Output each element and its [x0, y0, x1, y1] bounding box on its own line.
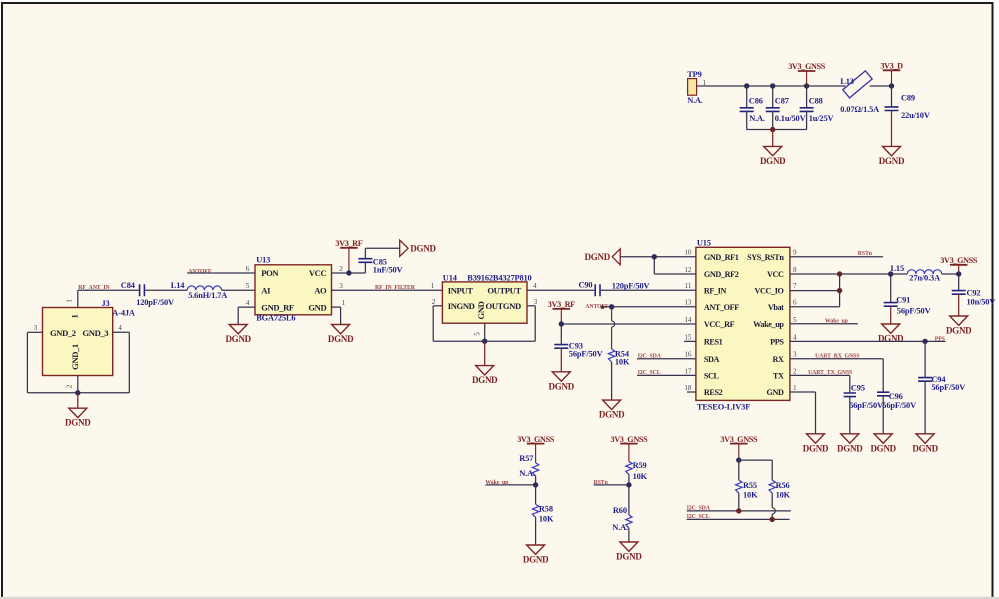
svg-text:C88: C88: [809, 96, 823, 105]
svg-text:DGND: DGND: [803, 443, 829, 453]
node VCC column top: [837, 271, 842, 276]
svg-text:14: 14: [684, 316, 692, 324]
capacitor C93 56pF/50V: [554, 324, 602, 372]
svg-text:22u/10V: 22u/10V: [901, 111, 930, 120]
svg-text:B39162B4327P810: B39162B4327P810: [467, 274, 531, 283]
power 3V3_GNSS: [788, 62, 826, 86]
svg-text:GND_RF2: GND_RF2: [704, 270, 739, 279]
svg-text:GND_RF1: GND_RF1: [704, 253, 739, 262]
svg-text:1: 1: [342, 299, 346, 307]
svg-text:1u/25V: 1u/25V: [809, 114, 834, 123]
svg-text:11: 11: [685, 282, 692, 290]
pin 15 stub of U15: [684, 340, 696, 342]
svg-text:AI: AI: [261, 285, 271, 295]
svg-text:DGND: DGND: [599, 410, 625, 420]
svg-text:56pF/50V: 56pF/50V: [931, 383, 965, 392]
svg-text:I2C_SDA: I2C_SDA: [687, 505, 711, 511]
wire U15 pin 4 net PPS: [790, 340, 946, 342]
node R56 / I2C_SCL: [770, 517, 775, 522]
svg-text:0.07Ω/1.5A: 0.07Ω/1.5A: [840, 105, 879, 114]
svg-text:4: 4: [118, 324, 122, 332]
svg-text:17: 17: [684, 367, 692, 375]
svg-text:RX: RX: [772, 355, 784, 364]
svg-text:TX: TX: [773, 372, 784, 381]
svg-text:3V3_GNSS: 3V3_GNSS: [788, 62, 826, 71]
svg-text:R59: R59: [633, 461, 647, 470]
svg-text:Vbat: Vbat: [768, 303, 784, 312]
svg-text:DGND: DGND: [65, 418, 91, 428]
svg-text:U13: U13: [256, 255, 270, 264]
svg-text:56pF/50V: 56pF/50V: [882, 401, 916, 410]
power 3V3_GNSS at R59: [611, 435, 649, 462]
node J3 ground join: [75, 390, 80, 395]
svg-text:DGND: DGND: [523, 555, 549, 565]
svg-text:DGND: DGND: [879, 156, 905, 166]
svg-text:3: 3: [339, 282, 343, 290]
wire U15 pin 6 Vbat: [790, 306, 840, 308]
svg-text:56pF/50V: 56pF/50V: [849, 401, 883, 410]
pin 1 of J3: [77, 290, 79, 307]
svg-text:5: 5: [793, 316, 797, 324]
capacitor C85 1nF/50V: [358, 248, 402, 274]
wire U15 pin 5 net Wake_up: [790, 323, 858, 325]
svg-text:OUTGND: OUTGND: [485, 301, 521, 311]
wire R55 top to R56 top: [739, 460, 772, 480]
wire J3 to C84: [78, 289, 139, 291]
svg-text:GND: GND: [767, 388, 784, 397]
svg-text:I2C_SDA: I2C_SDA: [638, 353, 662, 359]
wire ANTOFF to U15 pin 13: [601, 306, 696, 308]
node at PPS / C94: [922, 339, 927, 344]
ground DGND of R54: [599, 400, 625, 420]
capacitor C91 56pF/50V: [884, 274, 931, 324]
svg-text:18: 18: [684, 384, 692, 392]
svg-text:10K: 10K: [633, 472, 648, 481]
svg-text:U15: U15: [697, 239, 711, 248]
wire ANTOFF down with hop over VCC_RF: [612, 307, 615, 349]
capacitor C88 1u/25V: [800, 86, 834, 130]
wire U15 pin 8 VCC: [790, 273, 891, 275]
node R55/R56 top join: [736, 457, 741, 462]
pin 4 wire of U14 OUTPUT: [527, 282, 594, 290]
svg-text:120pF/50V: 120pF/50V: [136, 298, 174, 307]
svg-text:A-4JA: A-4JA: [112, 309, 135, 318]
node at U13 VCC / 3V3_RF: [346, 270, 351, 275]
svg-text:4: 4: [246, 299, 250, 307]
svg-text:C87: C87: [775, 96, 789, 105]
svg-text:C96: C96: [889, 392, 903, 401]
ferrite bead L13 0.07ohm/1.5A: [840, 71, 879, 114]
wire net I2C_SDA bottom: [687, 510, 791, 512]
power 3V3_GNSS at R57: [517, 435, 555, 463]
resistor R58 10K: [532, 485, 554, 545]
ground DGND of J3: [65, 408, 91, 428]
ground DGND of C94: [912, 434, 938, 454]
svg-text:16: 16: [684, 351, 692, 359]
svg-text:DGND: DGND: [912, 443, 938, 453]
svg-text:R58: R58: [539, 504, 553, 513]
svg-text:I2C_SCL: I2C_SCL: [638, 370, 661, 376]
svg-text:C91: C91: [896, 295, 910, 304]
svg-text:R60: R60: [613, 506, 627, 515]
svg-text:DGND: DGND: [837, 443, 863, 453]
svg-text:DGND: DGND: [616, 552, 642, 562]
power 3V3_GNSS at L15: [940, 256, 978, 274]
svg-text:DGND: DGND: [328, 334, 354, 344]
svg-text:VCC: VCC: [309, 268, 327, 278]
wire U15 pin 2 net UART_TX_GNSS: [790, 375, 850, 393]
wire C85 to DGND arrow: [365, 247, 399, 249]
capacitor C96 56pF/50V: [877, 392, 916, 434]
inductor L14 5.6nH/1.7A: [171, 281, 227, 300]
svg-text:C86: C86: [749, 96, 763, 105]
svg-text:5: 5: [246, 282, 250, 290]
svg-text:3V3_GNSS: 3V3_GNSS: [940, 256, 978, 265]
node at C87: [770, 83, 775, 88]
svg-text:DGND: DGND: [585, 252, 611, 262]
LNA U13 BGA725L6: [255, 255, 332, 322]
ground DGND of C91: [878, 324, 904, 344]
capacitor C90 120pF/50V: [579, 281, 650, 297]
svg-text:R56: R56: [776, 481, 790, 490]
svg-text:5.6nH/1.7A: 5.6nH/1.7A: [188, 291, 227, 300]
pin 4 of J3: [78, 324, 130, 393]
svg-text:Wake_up: Wake_up: [825, 318, 848, 324]
resistor R54 10K: [608, 349, 630, 400]
svg-text:10n/50V: 10n/50V: [967, 298, 996, 307]
ground DGND of U13 pin 1: [328, 325, 354, 345]
svg-text:PON: PON: [261, 268, 279, 278]
svg-text:3: 3: [34, 324, 38, 332]
svg-text:1nF/50V: 1nF/50V: [373, 265, 403, 274]
wire U15 pin 9 net RSTn: [790, 256, 883, 258]
svg-text:L15: L15: [891, 264, 905, 273]
wire net Wake_up at R57/R58: [485, 484, 535, 486]
svg-text:5: 5: [474, 332, 482, 336]
wire TP9 to L13: [697, 85, 846, 87]
power 3V3_RF at U13 VCC: [335, 239, 362, 273]
svg-text:3V3_RF: 3V3_RF: [335, 239, 362, 248]
ground DGND of C92: [946, 316, 972, 336]
node at 3V3_GNSS / C92: [956, 271, 961, 276]
wire rail to DGND: [772, 130, 774, 147]
svg-text:DGND: DGND: [760, 156, 786, 166]
node R55 / I2C_SDA: [736, 508, 741, 513]
svg-text:L14: L14: [171, 281, 185, 290]
svg-text:U14: U14: [443, 274, 458, 283]
wire L14 to U13 pin 5: [222, 289, 255, 291]
wire to DGND of J3: [77, 393, 79, 408]
svg-text:PPS: PPS: [935, 336, 945, 342]
svg-text:1: 1: [431, 282, 435, 290]
resistor R56 10K: [769, 480, 791, 519]
node at C86: [744, 83, 749, 88]
node VCC column mid: [837, 288, 842, 293]
svg-text:1: 1: [793, 384, 797, 392]
wire L13 to 3V3_D node: [870, 85, 892, 87]
ground DGND of U14: [472, 366, 498, 386]
capacitor C89 22u/10V: [885, 86, 930, 146]
svg-text:GND_3: GND_3: [83, 328, 109, 338]
svg-text:GND: GND: [476, 301, 486, 319]
svg-text:10: 10: [684, 249, 692, 257]
GNSS module U15 TESEO-LIV3F: [684, 239, 797, 412]
svg-text:120pF/50V: 120pF/50V: [612, 281, 650, 290]
svg-text:56pF/50V: 56pF/50V: [897, 306, 931, 315]
svg-text:UART_TX_GNSS: UART_TX_GNSS: [808, 370, 852, 376]
svg-text:27n/0.3A: 27n/0.3A: [909, 274, 940, 283]
wire U15 pin 1 GND: [790, 392, 816, 434]
wire net I2C_SCL bottom: [687, 518, 790, 520]
wire ground rail of C86-C88: [747, 129, 807, 131]
svg-text:2: 2: [66, 384, 74, 388]
wire U13 AO to U14 INPUT net RF_IN_FILTER: [332, 282, 443, 290]
svg-text:56pF/50V: 56pF/50V: [569, 350, 603, 359]
svg-text:R55: R55: [743, 481, 757, 490]
svg-text:DGND: DGND: [946, 326, 972, 336]
svg-text:1: 1: [70, 314, 80, 318]
svg-text:ANTOFF: ANTOFF: [188, 269, 212, 275]
svg-text:GND_2: GND_2: [50, 328, 76, 338]
svg-text:3: 3: [793, 351, 797, 359]
svg-text:RF_IN: RF_IN: [704, 286, 727, 295]
svg-text:OUTPUT: OUTPUT: [487, 286, 521, 296]
pin 18 stub of U15: [687, 391, 696, 393]
pin 3 of J3: [27, 324, 77, 393]
ground DGND of R58: [523, 545, 549, 565]
node at ANTOFF / R54: [609, 304, 614, 309]
svg-text:Wake_up: Wake_up: [485, 480, 508, 486]
svg-text:3V3_GNSS: 3V3_GNSS: [611, 435, 649, 444]
svg-text:AO: AO: [314, 285, 327, 295]
svg-text:VCC_IO: VCC_IO: [755, 286, 784, 295]
node on ground rail: [770, 127, 775, 132]
power 3V3_RF at U15 VCC_RF: [548, 300, 575, 324]
ground DGND of C95: [837, 434, 863, 454]
node R57/R58 join: [533, 482, 538, 487]
svg-text:10K: 10K: [539, 515, 554, 524]
svg-text:DGND: DGND: [225, 334, 251, 344]
svg-text:TESEO-LIV3F: TESEO-LIV3F: [697, 402, 750, 411]
pin 5 of U14 GND: [474, 323, 485, 341]
svg-text:1: 1: [65, 299, 73, 303]
svg-text:0.1u/50V: 0.1u/50V: [775, 114, 806, 123]
svg-text:8: 8: [793, 266, 797, 274]
svg-text:10K: 10K: [776, 490, 791, 499]
svg-text:C90: C90: [579, 281, 593, 290]
svg-text:15: 15: [684, 333, 692, 341]
svg-text:SDA: SDA: [704, 355, 720, 364]
inductor L15 27n/0.3A: [891, 264, 959, 283]
svg-text:INPUT: INPUT: [448, 286, 473, 296]
svg-text:DGND: DGND: [870, 443, 896, 453]
svg-text:N.A.: N.A.: [687, 96, 703, 105]
svg-text:RSTn: RSTn: [858, 251, 873, 257]
svg-text:DGND: DGND: [549, 381, 575, 391]
svg-text:VCC_RF: VCC_RF: [704, 320, 735, 329]
bottom edge strip: [0, 597, 999, 599]
svg-text:L13: L13: [840, 77, 854, 86]
wire I2C_SDA to U15 pin 16: [637, 358, 696, 360]
svg-text:RSTn: RSTn: [594, 480, 609, 486]
svg-text:4: 4: [533, 282, 537, 290]
svg-text:SYS_RSTn: SYS_RSTn: [747, 253, 784, 262]
capacitor C87 0.1u/50V: [766, 86, 806, 130]
ground DGND of U15 pin 1: [803, 434, 829, 454]
svg-text:Wake_up: Wake_up: [753, 320, 784, 329]
wire C90 to U15 RF_IN: [601, 289, 696, 291]
capacitor C84 120pF/50V: [121, 281, 187, 307]
svg-text:DGND: DGND: [472, 375, 498, 385]
svg-text:R57: R57: [519, 454, 533, 463]
wire net RSTn at R59/R60: [594, 484, 629, 486]
capacitor C92 10n/50V: [952, 274, 996, 316]
pin 2 wire of U13 VCC: [332, 265, 366, 273]
node at 3V3_RF / C93: [559, 321, 564, 326]
svg-text:GND: GND: [308, 302, 326, 312]
capacitor C95 56pF/50V: [844, 383, 883, 434]
node GND_RF join: [652, 254, 657, 259]
svg-text:GND_RF: GND_RF: [261, 302, 294, 312]
svg-text:3V3_D: 3V3_D: [880, 62, 903, 71]
wire U15 pin 7 VCC_IO: [790, 290, 840, 292]
svg-text:GND_1: GND_1: [70, 344, 80, 370]
ground DGND arrow at C85: [400, 240, 437, 256]
pin 2 of U14 INGND: [432, 298, 485, 341]
svg-text:6: 6: [246, 265, 250, 273]
resistor R59 10K: [626, 461, 648, 485]
ground DGND of C89: [879, 146, 905, 166]
pin 2 of J3: [66, 376, 78, 393]
svg-text:C84: C84: [121, 281, 136, 290]
svg-text:RES2: RES2: [704, 388, 723, 397]
node R59/R60 join: [626, 482, 631, 487]
ground DGND of C86-C88: [760, 146, 786, 166]
connector J3 A-4JA: [43, 299, 135, 375]
svg-text:2: 2: [339, 265, 343, 273]
svg-text:N.A.: N.A.: [749, 114, 765, 123]
ground DGND arrow at U15 pin 10: [585, 249, 621, 265]
pin 3 of U14 OUTGND: [485, 298, 538, 341]
svg-text:DGND: DGND: [410, 244, 436, 254]
svg-text:C89: C89: [901, 93, 915, 102]
wire U15 pin 3 net UART_RX_GNSS: [790, 359, 883, 392]
node U14 ground join: [482, 339, 487, 344]
wire I2C_SCL to U15 pin 17: [637, 374, 696, 376]
node at C88 / 3V3_GNSS: [804, 83, 809, 88]
svg-text:13: 13: [684, 299, 692, 307]
wire DGND to U15 pin 10: [620, 256, 696, 258]
svg-text:6: 6: [793, 299, 797, 307]
svg-text:SCL: SCL: [704, 372, 720, 381]
svg-text:VCC: VCC: [767, 270, 784, 279]
power 3V3_GNSS at R55/R56: [720, 435, 758, 460]
ground DGND of C93: [549, 372, 575, 392]
svg-text:INGND: INGND: [448, 301, 475, 311]
svg-text:TP9: TP9: [687, 70, 701, 79]
node at L15 / C91: [888, 271, 893, 276]
svg-text:PPS: PPS: [770, 338, 784, 347]
resistor R55 10K: [736, 460, 758, 511]
ground DGND of U13 pin 4: [225, 325, 251, 345]
svg-text:N.A.: N.A.: [612, 523, 628, 532]
svg-text:3: 3: [534, 298, 538, 306]
test point TP9: [687, 70, 703, 105]
net ANTOFF at U15 pin 13: [585, 304, 609, 310]
wire ANTOFF to U13 pin 6: [187, 265, 255, 273]
svg-text:J3: J3: [102, 299, 110, 308]
resistor R57 N.A.: [519, 454, 539, 485]
svg-text:2: 2: [432, 298, 436, 306]
svg-text:RF_IN_FILTER: RF_IN_FILTER: [375, 285, 416, 291]
node at 3V3_D / C89: [889, 83, 894, 88]
resistor R60 N.A.: [612, 485, 632, 542]
capacitor C86 N.A.: [740, 86, 765, 130]
pin 1 wire of U13 GND: [332, 299, 346, 325]
svg-text:12: 12: [684, 266, 692, 274]
svg-text:2: 2: [793, 367, 797, 375]
ground DGND of R60: [616, 542, 642, 562]
ground DGND of C96: [870, 434, 896, 454]
wire VCC column: [839, 274, 841, 307]
svg-text:9: 9: [793, 249, 797, 257]
power 3V3_D: [880, 62, 903, 87]
svg-text:N.A.: N.A.: [519, 469, 535, 478]
svg-text:7: 7: [793, 282, 797, 290]
svg-text:3V3_GNSS: 3V3_GNSS: [720, 435, 758, 444]
capacitor C94 56pF/50V: [918, 341, 965, 433]
svg-text:4: 4: [793, 333, 797, 341]
svg-text:UART_RX_GNSS: UART_RX_GNSS: [815, 353, 859, 359]
svg-text:BGA725L6: BGA725L6: [256, 314, 295, 323]
svg-text:ANT_OFF: ANT_OFF: [704, 303, 739, 312]
svg-text:C95: C95: [851, 383, 865, 392]
wire to DGND of U14: [484, 341, 486, 365]
svg-text:10K: 10K: [743, 490, 758, 499]
svg-text:I2C_SCL: I2C_SCL: [687, 514, 710, 520]
wire VCC_RF to U15 pin 14: [561, 323, 696, 325]
svg-text:3V3_GNSS: 3V3_GNSS: [517, 435, 555, 444]
SAW filter U14 B39162B4327P810: [442, 274, 531, 324]
svg-text:10K: 10K: [615, 358, 630, 367]
svg-text:3V3_RF: 3V3_RF: [548, 300, 575, 309]
wire to U15 pin 12: [654, 257, 696, 274]
svg-text:C92: C92: [967, 289, 981, 298]
svg-text:RES1: RES1: [704, 338, 723, 347]
pin 4 of U13 GND_RF: [238, 299, 255, 325]
